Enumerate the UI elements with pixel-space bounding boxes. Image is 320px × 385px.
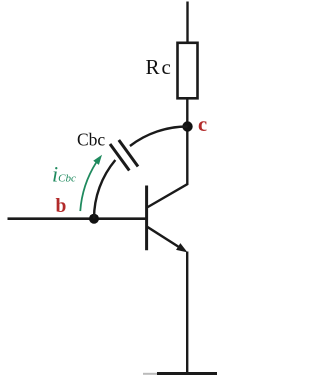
current arrow iCbc arc [80,162,96,211]
wire arc from capacitor Cbc to node c [130,127,188,147]
ground [157,372,217,375]
transistor Q1 emitter with arrow [147,227,183,250]
wire emitter to ground [186,252,188,374]
node b junction dot [89,214,99,224]
svg-text:c: c [198,114,207,136]
svg-text:Rc: Rc [146,55,171,79]
node c junction dot [182,121,192,131]
svg-text:iCbc: iCbc [52,162,76,187]
wire resistor to node c and collector corner [147,99,187,208]
current arrow iCbc head [93,155,102,165]
capacitor Cbc plate 1 [110,144,129,171]
wire arc from node b to capacitor Cbc [94,160,115,219]
transistor Q1 base bar [145,186,148,251]
resistor Rc [178,43,198,99]
capacitor Cbc plate 2 [119,140,138,167]
wire base lead [8,217,147,220]
svg-text:b: b [56,196,67,217]
svg-text:Cbc: Cbc [77,129,105,149]
wire top supply to resistor Rc [186,2,188,44]
